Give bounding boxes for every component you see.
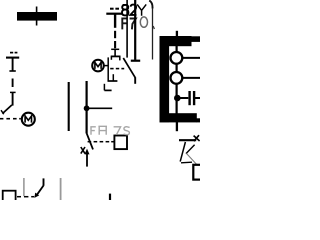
bottom-left box: [3, 191, 16, 202]
panel frame left bar: [160, 36, 170, 122]
label O (ellipse glyph): [140, 17, 147, 27]
switch blade SW1: [2, 105, 11, 114]
bottom-right box: [193, 165, 203, 180]
limit switch wire blade: [87, 133, 93, 149]
lead segment: [12, 93, 14, 106]
motor M1 letter: [25, 116, 31, 123]
motor M2 stub: [104, 65, 108, 67]
tick on lead: [111, 48, 119, 50]
fuse-disconnect F1 lead: [12, 58, 14, 71]
contact blade: [123, 58, 135, 78]
contact crossbar: [131, 60, 140, 62]
panel frame bottom bar thin step: [196, 118, 200, 122]
blade tail: [134, 77, 136, 84]
long diagonal lead: [180, 142, 185, 162]
dashed lead segment: [12, 79, 14, 88]
check diagonal upper: [186, 145, 195, 154]
capacitor C2 lead: [179, 97, 188, 99]
dashed link to operator box: [88, 141, 115, 143]
terminal circle T2: [171, 72, 183, 84]
wire (vertical, x68): [68, 82, 70, 131]
corner bracket vertical: [103, 84, 105, 91]
wire (vertical, x86): [85, 81, 87, 133]
label 82Y: [122, 4, 146, 15]
branch wire to right: [87, 107, 113, 109]
leader line with hook: [149, 1, 152, 9]
capacitor C1 top dashes: [110, 8, 119, 10]
wire (vertical, x127): [126, 0, 128, 58]
dashed lead segment: [114, 31, 116, 38]
staple right leg: [119, 56, 121, 60]
motor M2 letter: [95, 62, 101, 69]
dashed lead segment: [114, 41, 116, 48]
dashed line to blade: [17, 196, 34, 198]
x mark: [81, 147, 85, 154]
dashed mechanical link M2-switch: [110, 68, 124, 70]
leader tick: [153, 26, 154, 29]
thermal element vertical: [107, 57, 109, 81]
gray wire x24: [23, 178, 25, 196]
panel frame top bar thin step: [191, 36, 200, 42]
actuator arrow head: [85, 149, 90, 155]
panel frame bottom bar: [160, 113, 197, 122]
terminal T1 lead: [182, 57, 200, 59]
switch blade: [36, 186, 43, 196]
contact fixed wire x135: [134, 0, 136, 60]
capacitor C2 plate 1: [188, 91, 190, 105]
operator box: [114, 136, 127, 150]
terminal circle T1: [171, 52, 183, 64]
wire through busbar: [36, 7, 38, 26]
gray wire x60: [60, 178, 62, 200]
fuse-disconnect F1 plate: [6, 57, 19, 59]
internal vertical wire: [176, 46, 178, 122]
actuator arrow shaft: [86, 153, 88, 167]
switch wire stub: [43, 178, 45, 185]
terminal T2 lead: [182, 77, 200, 79]
motor M1 circle: [22, 113, 35, 126]
check diagonal lower: [186, 153, 196, 164]
capacitor C2 plate 2: [193, 91, 195, 105]
staple left leg: [110, 56, 112, 59]
x mark at line end: [194, 135, 200, 141]
junction dot: [84, 105, 90, 111]
junction dot on internal wire: [174, 95, 181, 102]
blade arrow head: [34, 193, 39, 198]
lead segment: [114, 50, 116, 56]
fuse-disconnect F1 lower tick: [9, 70, 15, 72]
tick on lead: [10, 91, 16, 93]
capacitor C1 thick lead: [114, 15, 116, 28]
staple bar: [111, 55, 121, 57]
capacitor C2 right lead: [195, 97, 200, 99]
bottom stub wire x110: [109, 194, 111, 200]
blade end tick: [1, 110, 4, 114]
capacitor C1 plate: [106, 13, 122, 15]
thermal element bottom horizontal: [108, 80, 118, 82]
wire stub below frame: [176, 122, 178, 131]
connector line to box: [181, 161, 192, 164]
corner bracket horizontal: [104, 89, 111, 91]
busbar (top-left thick bar): [17, 12, 57, 21]
fuse-disconnect F1 top dashes: [10, 52, 17, 54]
motor M2 circle: [92, 60, 104, 72]
label FH7S: [91, 126, 130, 135]
panel frame top bar: [160, 36, 192, 46]
label F7: [122, 18, 136, 29]
thermal element inner vertical: [112, 74, 114, 81]
pressure line (bottom right): [179, 139, 196, 141]
dashed link to motor M1: [0, 118, 21, 120]
wire stub above frame: [176, 31, 178, 37]
